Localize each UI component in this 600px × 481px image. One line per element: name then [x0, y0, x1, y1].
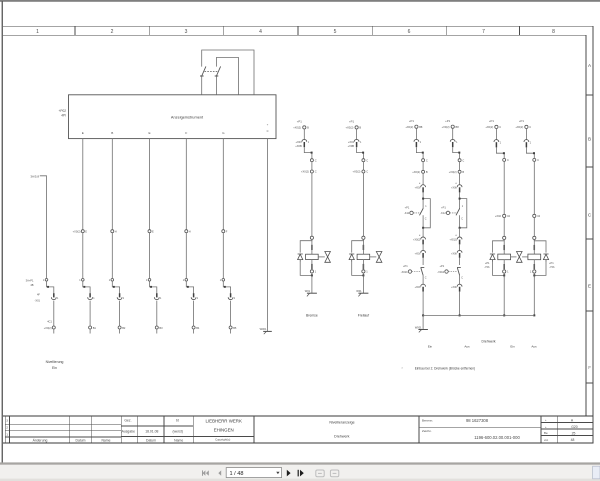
- toolbar page number box: [226, 468, 281, 478]
- viewer toolbar background: [0, 465, 600, 481]
- toolbar bottom strip: [0, 479, 600, 481]
- wire to manual contact R2: [459, 258, 461, 265]
- svg-text:+X0b: +X0b: [415, 186, 421, 189]
- toolbar next-page button: [287, 470, 291, 477]
- labels at M1c: [301, 170, 317, 174]
- connector circle R2b: [458, 159, 461, 162]
- wire shared valve body to coil Y4: [522, 256, 528, 258]
- number band tick 2: [148, 26, 150, 35]
- svg-text:5: 5: [334, 29, 337, 35]
- valve bottom circle M2: [362, 270, 365, 273]
- svg-text:H: H: [189, 230, 191, 234]
- sheet box row line 2: [541, 428, 593, 430]
- top connector labels M2: [346, 126, 362, 130]
- svg-text:C: C: [366, 170, 368, 174]
- pin label C (pin6, two-line): [267, 124, 269, 134]
- svg-text:+X0(2): +X0(2): [515, 125, 523, 129]
- svg-text:C: C: [315, 158, 317, 162]
- svg-text:+X02: +X02: [495, 214, 502, 218]
- wire bottom circle to junction R4: [533, 273, 535, 277]
- title block vertical after Aenderung: [120, 416, 122, 443]
- svg-text:Name: Name: [174, 438, 183, 442]
- svg-text:+P1: +P1: [297, 120, 302, 124]
- svg-text:Anzeigeinstrument: Anzeigeinstrument: [171, 114, 204, 119]
- connector socket cup R2f: [457, 250, 462, 252]
- frame number band bottom line: [3, 34, 586, 36]
- top connector circle R1: [415, 125, 418, 128]
- wire from reference into column 1: [40, 176, 47, 278]
- toolbar previous-view icon (disabled): [316, 470, 324, 477]
- svg-text:+X0(2): +X0(2): [449, 170, 457, 174]
- valve bottom circle M1: [310, 270, 313, 273]
- svg-text:4C1: 4C1: [47, 319, 52, 323]
- manual switch circle R1: [408, 270, 411, 273]
- junction nub at bus R1: [422, 314, 424, 316]
- solenoid coil box YR3: [498, 254, 511, 260]
- mid connector circle R3c: [503, 214, 506, 217]
- svg-text:E: E: [148, 131, 150, 135]
- svg-text:C: C: [425, 218, 427, 221]
- connector socket cup M2a: [354, 139, 359, 141]
- bottom connector circle X2.5: [192, 326, 195, 329]
- svg-text:Drehwerk: Drehwerk: [481, 340, 495, 344]
- valve top circle R4: [533, 236, 536, 239]
- sheet box row line 1: [541, 421, 593, 423]
- connector circle X1.2: [111, 230, 114, 233]
- wire top circle down R2: [452, 128, 454, 139]
- letter band tick A/B: [586, 94, 593, 96]
- labels left of cup R1d: [415, 182, 421, 189]
- wire down to bus R3: [503, 275, 505, 315]
- revision table Name column line: [90, 416, 92, 443]
- svg-text:B: B: [111, 131, 113, 135]
- title block vertical after Gez column: [136, 416, 138, 443]
- ground diagonal tick W001 (right section): [419, 330, 422, 333]
- instrument box U1 Anzeigeinstrument: [69, 95, 277, 139]
- connector circle R4b: [533, 158, 536, 161]
- svg-text:C: C: [366, 158, 368, 162]
- contact pin labels 1 C R2: [461, 205, 464, 220]
- wire top circle down M2: [356, 129, 358, 140]
- connector pin stroke R1d: [422, 187, 424, 192]
- svg-text:F: F: [185, 131, 187, 135]
- revision table left edge: [4, 416, 6, 443]
- connector pin stroke K5: [193, 293, 195, 297]
- connector circle R3b: [503, 158, 506, 161]
- wire stub below X2.5: [193, 329, 195, 334]
- wire cup K2 down to circle: [89, 301, 91, 326]
- connector socket cup R2a: [450, 139, 455, 141]
- wire jog at S3: [112, 281, 119, 293]
- connector circle M2c: [362, 170, 365, 173]
- connector socket cup R1a: [414, 139, 419, 141]
- connector socket cup R2d: [457, 185, 462, 187]
- svg-text:+X0(2): +X0(2): [405, 125, 413, 129]
- svg-text:4PI: 4PI: [61, 114, 66, 118]
- long wire R3 down: [503, 161, 505, 214]
- relay contact box outline -K12: [460, 199, 467, 228]
- diode VR4 symbol: [543, 254, 548, 262]
- svg-text:B: B: [588, 137, 591, 142]
- switch contact S1a blade: [200, 66, 206, 76]
- top connector circle R4: [525, 125, 528, 128]
- revision table row line 2: [5, 430, 121, 432]
- svg-text:E: E: [82, 131, 84, 135]
- manual contact blade R1: [421, 267, 425, 275]
- svg-text:+P1: +P1: [489, 119, 494, 123]
- connector socket cup K5: [191, 297, 196, 299]
- svg-text:+P1: +P1: [549, 261, 554, 265]
- svg-text:+X0b: +X0b: [415, 252, 421, 255]
- wire R3c down to valve: [503, 218, 505, 237]
- top connector circle M2: [355, 126, 358, 129]
- svg-text:B: B: [359, 126, 361, 130]
- hydraulic valve bowtie M1: [325, 252, 331, 263]
- wire coil to bottom circle R3: [503, 260, 505, 270]
- svg-text:+P1: +P1: [409, 119, 414, 123]
- number band tick 1: [74, 26, 76, 35]
- connector circle R1b: [422, 159, 425, 162]
- svg-text:G20: G20: [571, 425, 578, 429]
- svg-text:1: 1: [36, 29, 39, 35]
- svg-text:Name: Name: [101, 438, 110, 442]
- function text Nivellierung Ein: [46, 360, 64, 370]
- svg-text:-Y0b: -Y0b: [549, 265, 555, 269]
- wire R2c down: [459, 173, 461, 185]
- bottom connector circle X2.3: [118, 326, 121, 329]
- connector circle R2c: [458, 170, 461, 173]
- svg-text:-Y0b: -Y0b: [484, 265, 490, 269]
- svg-text:+P1: +P1: [349, 120, 354, 124]
- svg-text:-X01b: -X01b: [437, 270, 444, 274]
- dashed link manual switch R1: [412, 271, 420, 273]
- svg-text:Änderung: Änderung: [33, 438, 48, 442]
- svg-text:C: C: [461, 218, 463, 221]
- contact blade -K11: [420, 209, 424, 216]
- ground diagonal tick M1: [307, 293, 310, 296]
- svg-text:+P1: +P1: [440, 264, 445, 268]
- top connector labels M1: [293, 126, 309, 130]
- wire into coil M2: [362, 239, 364, 254]
- labels at R3c: [495, 214, 511, 218]
- wire coil to bottom circle M2: [362, 260, 364, 270]
- svg-text:18.01.08: 18.01.08: [145, 430, 158, 434]
- svg-text:+X0(2): +X0(2): [442, 125, 450, 129]
- connector pin stroke R2d: [459, 187, 461, 192]
- junction nub at bus R2: [459, 314, 461, 316]
- junction nub jog R4: [533, 152, 535, 154]
- svg-text:E: E: [588, 284, 591, 289]
- svg-text:B4: B4: [196, 326, 200, 330]
- manual contact blade R2: [457, 267, 461, 275]
- connector circle X1.1: [81, 230, 84, 233]
- wire down to bus R2: [459, 292, 461, 316]
- connector circle M1b: [310, 159, 313, 162]
- frame outer top border: [3, 25, 594, 27]
- number band tick 7: [519, 26, 521, 35]
- svg-text:1: 1: [6, 433, 8, 437]
- connector circle M1c: [310, 170, 313, 173]
- junction nub jog M1: [311, 152, 313, 154]
- Datum/Name label row line: [121, 435, 193, 437]
- pin circle at switch S6: [222, 279, 225, 282]
- dashed link manual switch R2: [448, 271, 456, 273]
- wire M1b to M1c: [311, 162, 313, 170]
- connector pin stroke R2e: [459, 240, 461, 245]
- wire R1b to R1c: [422, 162, 424, 171]
- svg-text:B2: B2: [122, 326, 126, 330]
- frame letter band inner line: [585, 35, 587, 415]
- svg-text:6: 6: [408, 29, 411, 35]
- svg-text:Ein: Ein: [510, 345, 515, 349]
- svg-text:+X0(2): +X0(2): [293, 126, 301, 130]
- connector pin stroke K6: [230, 293, 232, 297]
- svg-text:+X0(2): +X0(2): [413, 239, 420, 242]
- labels left of cup R2d: [451, 182, 457, 189]
- svg-text:C: C: [537, 158, 539, 162]
- svg-text:+P1: +P1: [403, 264, 408, 268]
- wire top circle down R3: [495, 129, 497, 140]
- svg-text:Aus: Aus: [464, 345, 470, 349]
- relay contact box outline -K11: [423, 199, 430, 228]
- connector socket cup R1e: [421, 237, 426, 239]
- svg-text:2: 2: [6, 426, 8, 430]
- svg-text:C: C: [461, 276, 463, 279]
- svg-text:W01: W01: [305, 289, 311, 293]
- manual switch labels R1: [401, 264, 408, 274]
- svg-text:E: E: [85, 230, 87, 234]
- svg-text:-X01: -X01: [35, 299, 41, 303]
- top connector circle R3: [495, 125, 498, 128]
- svg-text:+P1: +P1: [485, 261, 490, 265]
- connector pin stroke R1g: [422, 287, 424, 292]
- solenoid coil box YR4: [528, 254, 541, 260]
- number band tick 6: [446, 26, 448, 35]
- mid connector circle R4c: [533, 214, 536, 217]
- wire from instrument pin 3 down: [149, 139, 151, 230]
- svg-text:(werst): (werst): [173, 430, 183, 434]
- title block vertical after Liebherr box: [253, 416, 255, 443]
- coil pin stroke top R3: [503, 245, 505, 250]
- wire jog R2: [453, 147, 460, 158]
- wire to connector R1g: [422, 275, 424, 285]
- connector pin stroke R1a: [415, 142, 417, 147]
- bottom connector circle X2.1: [52, 326, 55, 329]
- connector socket cup M1a: [302, 139, 307, 141]
- manual switch labels R2: [437, 264, 444, 274]
- junction nub at S3: [113, 286, 115, 288]
- svg-text:bt: bt: [176, 418, 179, 422]
- diode labels R3: [484, 261, 490, 269]
- dashed actuation link -K11: [413, 212, 420, 214]
- svg-text:B5: B5: [233, 326, 237, 330]
- wire into relay contact box R1: [422, 192, 424, 209]
- junction nub diode return M1: [311, 274, 313, 276]
- revision table row line 1: [5, 423, 121, 425]
- connector socket cup R1d: [421, 185, 426, 187]
- svg-text:B: B: [462, 170, 464, 174]
- wire jog at S6: [223, 281, 230, 293]
- connector socket cup R2g: [457, 284, 462, 286]
- connector pin stroke R4a: [525, 142, 527, 147]
- contact pin labels 1 C R1: [425, 205, 428, 220]
- svg-text:F: F: [588, 365, 591, 370]
- wire cup K5 down to circle: [193, 301, 195, 326]
- bottom connector circle X2.6: [229, 326, 232, 329]
- diode VR3 symbol: [490, 254, 495, 262]
- solenoid coil box YM2: [357, 254, 370, 259]
- terminal bar W001: [263, 330, 272, 332]
- relay coil circle -K12: [446, 211, 449, 214]
- wire cup K4 down to circle: [156, 301, 158, 326]
- wire jog R4: [526, 147, 534, 158]
- page bottom shadow: [0, 462, 600, 464]
- svg-text:+X0(2): +X0(2): [301, 170, 309, 174]
- svg-text:C: C: [529, 125, 531, 129]
- letter band tick D/E: [586, 310, 593, 312]
- svg-text:Nivellierung: Nivellierung: [46, 360, 64, 364]
- svg-text:B: B: [426, 170, 428, 174]
- junction nub diode return R3: [503, 274, 505, 276]
- svg-text:C: C: [462, 158, 464, 162]
- wire stub below X2.3: [119, 329, 121, 334]
- wire down to ground M1: [311, 275, 313, 293]
- svg-text:3A+P1: 3A+P1: [26, 278, 34, 282]
- svg-text:Benenn.: Benenn.: [422, 419, 433, 423]
- frame outer right border: [592, 26, 594, 443]
- connector socket cup R1f: [421, 250, 426, 252]
- svg-text:+X0(2): +X0(2): [485, 125, 493, 129]
- wire coil to valve body M1: [318, 256, 325, 258]
- wire X1.2 to switch: [111, 233, 113, 279]
- svg-text:+X01: +X01: [296, 140, 303, 144]
- connector pin stroke K2: [89, 293, 91, 297]
- wire coil to bottom circle M1: [311, 260, 313, 270]
- svg-text:Ausgabe: Ausgabe: [122, 430, 135, 434]
- coil pin stroke top M1: [311, 245, 313, 250]
- svg-text:Datum: Datum: [76, 438, 86, 442]
- wire stub below X2.2: [89, 329, 91, 334]
- svg-text:C: C: [507, 158, 509, 162]
- junction nub diode return R4: [533, 274, 535, 276]
- svg-text:+X0(2): +X0(2): [73, 230, 81, 234]
- shared hydraulic valve bowtie Y34: [517, 252, 523, 263]
- wire bus down to ground W001: [422, 315, 424, 329]
- svg-text:Ein: Ein: [52, 366, 57, 370]
- wire to connector R2e: [459, 228, 461, 238]
- wire stub below X2.6: [230, 329, 232, 334]
- wire jog at S5: [186, 281, 193, 293]
- svg-text:98 1627308: 98 1627308: [466, 418, 489, 423]
- junction nub box top: [459, 198, 461, 200]
- valve top circle M2: [362, 236, 365, 239]
- svg-text:+X0(2): +X0(2): [450, 239, 457, 242]
- wire jog at S1: [47, 281, 54, 293]
- connector pin stroke R3a: [495, 142, 497, 147]
- junction nub at S1: [47, 286, 49, 288]
- connector socket cup K4: [154, 297, 159, 299]
- pin circle at switch S1: [45, 279, 48, 282]
- svg-text:Einbau bei 2. Drehwerk (Brücke: Einbau bei 2. Drehwerk (Brücke entfernen…: [415, 367, 475, 371]
- window top bar: [0, 0, 600, 2]
- connector circle R1c: [422, 170, 425, 173]
- svg-text:+X0b: +X0b: [451, 286, 457, 289]
- svg-text:3: 3: [6, 419, 8, 423]
- letter band tick B/C: [586, 166, 593, 168]
- diode labels R4: [549, 261, 555, 269]
- svg-text:Zeichn.: Zeichn.: [422, 429, 432, 433]
- ground diagonal tick M2: [358, 293, 361, 296]
- connector socket cup R3a: [494, 140, 499, 142]
- relay coil circle -K11: [410, 211, 413, 214]
- svg-text:8: 8: [552, 29, 555, 35]
- svg-text:+X0b: +X0b: [451, 252, 457, 255]
- svg-text:-K12: -K12: [440, 211, 446, 215]
- svg-text:48: 48: [571, 438, 575, 442]
- svg-text:Copyright(c): Copyright(c): [215, 438, 230, 442]
- svg-text:+X0(2): +X0(2): [353, 170, 361, 174]
- wire from instrument pin 4 down: [185, 139, 187, 230]
- wire X1.3 to switch: [149, 233, 151, 279]
- bottom connector circle X2.2: [89, 326, 92, 329]
- wire down to bus R4: [533, 275, 535, 315]
- coil pin stroke bottom M1: [311, 264, 313, 269]
- connector circle M2b: [362, 159, 365, 162]
- valve top circle R3: [503, 236, 506, 239]
- wire coil to bottom circle R4: [533, 260, 535, 270]
- svg-text:Bw: Bw: [544, 431, 548, 435]
- top connector labels R1: [405, 125, 423, 129]
- Benenn/Zeichn row line: [419, 427, 541, 429]
- wire down to bus R1: [422, 292, 424, 316]
- window left edge: [2, 1, 3, 465]
- svg-text:+X0b: +X0b: [451, 186, 457, 189]
- wire M1c down to valve: [311, 173, 313, 236]
- labels at M2c: [353, 170, 369, 174]
- connector pin stroke R1e: [422, 240, 424, 245]
- wire instrument pin 6 down to terminal: [267, 139, 269, 332]
- pin circle at switch S2: [82, 279, 85, 282]
- ground terminal bar M2: [358, 292, 368, 294]
- terminal diagonal tick W001: [264, 332, 266, 335]
- wire upper loop inner rectangle: [216, 58, 238, 95]
- svg-text:3A/5.8: 3A/5.8: [30, 174, 39, 178]
- contact blade -K12: [456, 209, 460, 216]
- svg-text:Aus: Aus: [531, 345, 537, 349]
- svg-text:Nivellieranzeige: Nivellieranzeige: [329, 420, 354, 424]
- connector pin stroke M1a: [303, 142, 305, 147]
- connector socket cup R1g: [421, 284, 426, 286]
- junction nub at bus R4: [533, 314, 535, 316]
- svg-text:4F: 4F: [37, 293, 40, 297]
- junction nub box top: [422, 198, 424, 200]
- wire to manual contact R1: [422, 258, 424, 265]
- valve bottom circle R3: [503, 270, 506, 273]
- coil pin stroke bottom M2: [362, 264, 364, 269]
- wire from instrument pin 2 down: [111, 139, 113, 230]
- connector pin stroke K3: [119, 293, 121, 297]
- svg-text:Bremse: Bremse: [306, 313, 318, 317]
- svg-text:B8: B8: [456, 125, 460, 129]
- svg-text:+P1: +P1: [519, 119, 524, 123]
- title block bottom thick border: [3, 443, 594, 444]
- connector circle X1.5: [222, 230, 225, 233]
- long wire R4 down: [533, 161, 535, 214]
- valve top circle M1: [310, 236, 313, 239]
- dashed mechanical link between contacts: [205, 70, 218, 72]
- wire down to ground M2: [362, 275, 364, 293]
- number band tick 3: [223, 26, 225, 35]
